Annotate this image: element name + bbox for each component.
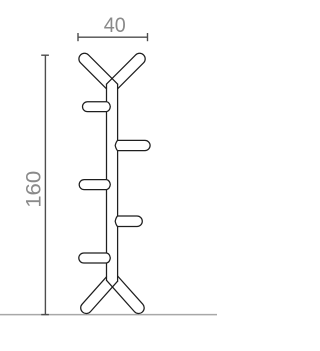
coat rack drawing [79, 53, 150, 313]
dimension height bottom tick [41, 314, 49, 316]
pole left edge [106, 84, 108, 280]
bottom left leg [81, 277, 118, 314]
svg-text:160: 160 [21, 171, 46, 208]
dimension height 160 line [41, 55, 49, 314]
bottom right leg [107, 276, 145, 313]
peg 3 left [79, 180, 110, 190]
floor line [0, 314, 217, 316]
peg 1 left [82, 102, 110, 112]
pole right edge [117, 84, 119, 281]
peg 5 left [79, 253, 111, 263]
svg-text:40: 40 [104, 12, 126, 37]
peg 2 right [115, 140, 150, 150]
top left arm [79, 53, 118, 89]
top right arm [107, 53, 146, 89]
dimension width left tick [77, 33, 79, 41]
dimension height top tick [41, 54, 49, 56]
peg 4 right [115, 216, 142, 227]
dimension width right tick [147, 33, 149, 41]
dimension width 40 line [78, 33, 148, 41]
